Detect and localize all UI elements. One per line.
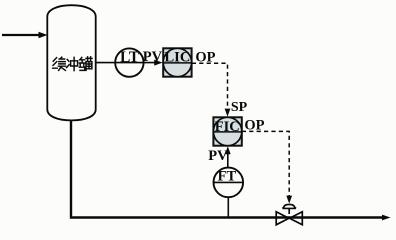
instrument LIC (level controller, panel mounted) bbox=[163, 48, 191, 76]
svg-text:PV: PV bbox=[143, 49, 163, 65]
svg-text:FT: FT bbox=[218, 168, 237, 184]
wire: FT tap to pipe bbox=[227, 197, 229, 217]
char 缓 bbox=[53, 58, 58, 69]
svg-text:OP: OP bbox=[244, 118, 264, 134]
wire: level signal from tank through LT to LIC bbox=[96, 62, 157, 64]
valve FV body (two triangles) bbox=[276, 212, 302, 225]
svg-text:LIC: LIC bbox=[165, 50, 191, 66]
instrument LT (level transmitter) bbox=[115, 48, 143, 76]
valve actuator (diaphragm dome + stem) bbox=[283, 204, 296, 214]
wire: dashed OP signal LIC to FIC setpoint bbox=[192, 63, 228, 110]
instrument FIC (flow controller, panel mounted) bbox=[213, 117, 241, 145]
outlet arrowhead bbox=[382, 215, 391, 221]
svg-text:SP: SP bbox=[231, 100, 248, 115]
svg-text:PV: PV bbox=[208, 148, 228, 164]
char 罐 bbox=[79, 57, 84, 70]
char 冲 bbox=[67, 59, 70, 67]
svg-text:LT: LT bbox=[120, 49, 140, 66]
svg-text:OP: OP bbox=[195, 50, 215, 66]
wire: dashed OP signal FIC to control valve bbox=[242, 131, 289, 197]
wire: inlet feed arrow into tank bbox=[2, 32, 48, 38]
tank V1 (buffer tank vessel) bbox=[47, 5, 95, 120]
svg-text:FIC: FIC bbox=[215, 119, 240, 135]
instrument FT (flow transmitter) bbox=[214, 168, 244, 198]
pipe: tank outlet down and along bottom to outlet bbox=[71, 120, 385, 218]
label 缓冲罐 (buffer tank), hand-drawn glyph strokes bbox=[53, 57, 92, 71]
wire: flow PV signal FT up to FIC bbox=[227, 152, 229, 168]
